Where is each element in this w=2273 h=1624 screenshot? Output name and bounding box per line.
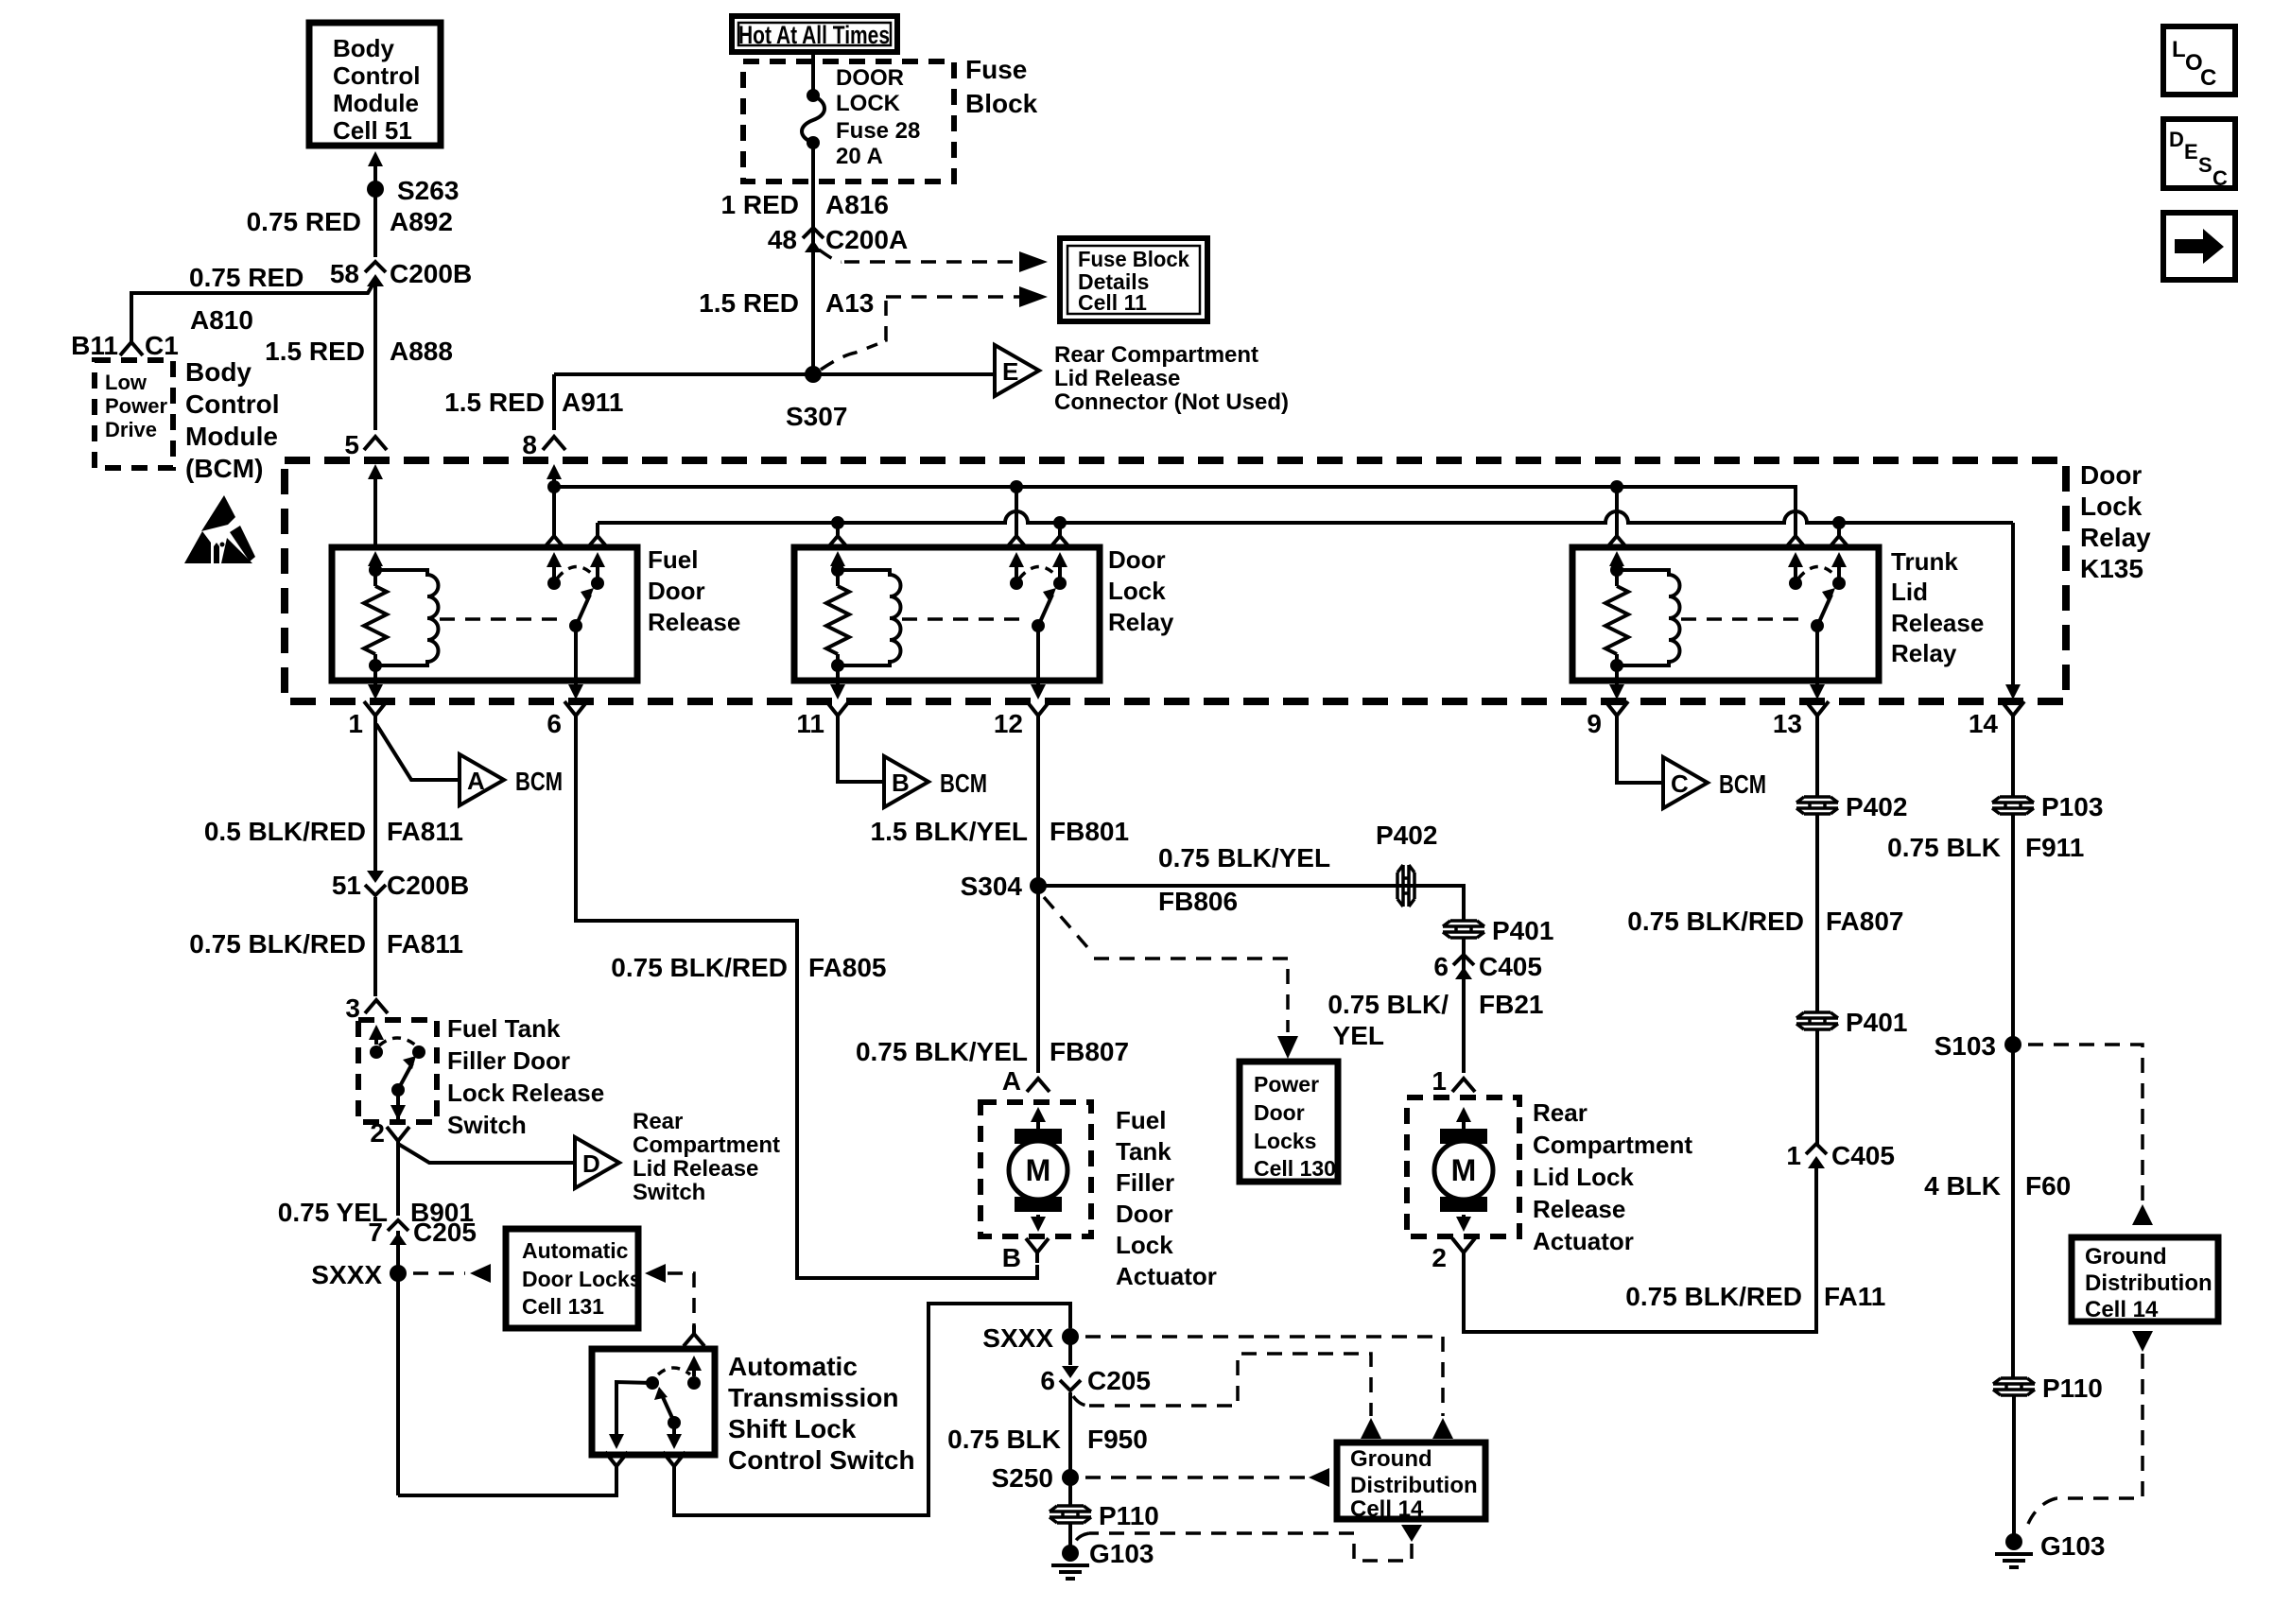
wire lineA to trunk coil entry	[1615, 487, 1619, 529]
node line A to relay 2 left contact	[1010, 480, 1023, 493]
rear actuator pin 2	[1452, 1238, 1475, 1263]
svg-text:Cell 14: Cell 14	[2085, 1297, 2159, 1322]
Fuel Tank Filler Door Lock Actuator dashed box	[980, 1102, 1091, 1236]
svg-text:20 A: 20 A	[836, 144, 883, 169]
pin 1	[364, 701, 387, 726]
wire B901	[396, 1148, 400, 1216]
svg-text:Lid Release: Lid Release	[633, 1156, 758, 1182]
svg-text:0.5 BLK/RED: 0.5 BLK/RED	[204, 817, 366, 846]
shift lock left contact	[646, 1376, 659, 1390]
svg-text:Fuse 28: Fuse 28	[836, 118, 920, 144]
svg-text:FA11: FA11	[1824, 1282, 1885, 1311]
svg-text:Hot At All Times: Hot At All Times	[738, 21, 890, 49]
svg-text:A: A	[467, 767, 485, 795]
svg-text:P110: P110	[2042, 1373, 2103, 1403]
connector C200A pin 48	[803, 228, 824, 238]
svg-text:Filler Door: Filler Door	[447, 1046, 570, 1075]
Ground Distribution Cell 14 box middle	[1337, 1443, 1485, 1519]
wire line B to pin 14	[2011, 523, 2015, 681]
svg-text:A816: A816	[825, 190, 889, 219]
svg-text:A13: A13	[825, 288, 874, 318]
relay Door Lock coil-to-switch dashed link	[902, 617, 1027, 621]
pin 5 connector at K135	[364, 437, 387, 450]
ground G103 middle	[1062, 1545, 1079, 1562]
relay Trunk Lid Release coil wire to pin	[1615, 665, 1619, 681]
Fuel Tank Filler Door Lock Release Switch dashed box	[358, 1020, 437, 1122]
LOC legend box	[2163, 26, 2235, 95]
svg-text:Release: Release	[648, 608, 740, 636]
wire F950	[1068, 1392, 1072, 1472]
relay Trunk Lid Release left contact	[1789, 577, 1802, 590]
connector C205 pin 7	[388, 1220, 408, 1231]
svg-text:K135: K135	[2080, 554, 2143, 583]
Fuse Block dashed box	[743, 61, 954, 181]
svg-text:C205: C205	[1087, 1366, 1151, 1395]
relay Door Lock contact travel arc	[1019, 566, 1057, 579]
svg-text:L: L	[2172, 37, 2186, 62]
svg-text:Distribution: Distribution	[2085, 1270, 2212, 1296]
svg-text:FB806: FB806	[1158, 887, 1238, 916]
svg-text:2: 2	[1431, 1243, 1447, 1272]
relay Trunk Lid Release common wire to pin	[1815, 626, 1819, 681]
relay Door Lock box	[794, 547, 1100, 681]
wire pin8 to relay1 left contact	[552, 487, 556, 529]
relay Fuel Door Release coil feed arrow	[373, 559, 377, 563]
svg-text:48: 48	[768, 225, 797, 254]
wire FA811 lower	[373, 897, 377, 996]
connector P401 on pin13 wire	[1796, 1012, 1838, 1029]
wire P110 to G103	[1068, 1524, 1072, 1553]
dashed ground distribution return to G103 right	[2132, 1331, 2153, 1352]
shift lock common	[668, 1416, 681, 1429]
relay Door Lock left contact	[1010, 577, 1023, 590]
svg-text:6: 6	[547, 709, 562, 738]
wire A888 vertical to pin 5	[373, 286, 377, 430]
relay Door Lock switch arm	[1040, 595, 1052, 622]
wire A892 vertical	[373, 189, 377, 257]
pin 12	[1027, 701, 1050, 726]
svg-text:3: 3	[345, 993, 360, 1023]
svg-text:Cell 11: Cell 11	[1078, 290, 1147, 315]
svg-text:SXXX: SXXX	[311, 1260, 382, 1289]
fuel actuator pin B	[1026, 1238, 1049, 1263]
pin 13	[1806, 701, 1829, 726]
shift lock common wire	[672, 1423, 676, 1431]
svg-text:F950: F950	[1087, 1425, 1148, 1454]
pin 11	[826, 701, 849, 726]
svg-text:14: 14	[1969, 709, 1999, 738]
pin 8 connector at K135	[543, 437, 565, 450]
svg-text:Tank: Tank	[1116, 1137, 1171, 1166]
svg-text:Distribution: Distribution	[1350, 1473, 1478, 1498]
svg-text:C205: C205	[413, 1218, 477, 1247]
svg-text:0.75 BLK/RED: 0.75 BLK/RED	[1625, 1282, 1802, 1311]
svg-text:C1: C1	[145, 331, 179, 360]
svg-text:A892: A892	[390, 207, 453, 236]
svg-text:M: M	[1451, 1153, 1477, 1187]
fuel switch fixed contact right	[412, 1045, 425, 1059]
svg-text:P103: P103	[2041, 792, 2103, 821]
svg-text:YEL: YEL	[1333, 1021, 1384, 1050]
svg-text:Lock Release: Lock Release	[447, 1079, 604, 1107]
svg-text:Lock: Lock	[2080, 492, 2143, 521]
svg-text:0.75 BLK/YEL: 0.75 BLK/YEL	[1158, 843, 1330, 872]
Power Door Locks Cell 130 box	[1240, 1062, 1338, 1182]
splice S263	[367, 181, 384, 198]
wire A816	[811, 143, 815, 262]
relay Trunk Lid Release coil top node	[1610, 563, 1623, 577]
svg-text:M: M	[1026, 1153, 1051, 1187]
svg-text:C: C	[2212, 166, 2228, 190]
relay Door Lock coil winding	[838, 570, 901, 665]
svg-text:Control: Control	[333, 61, 420, 90]
svg-text:Fuel Tank: Fuel Tank	[447, 1014, 561, 1043]
Rear Compartment Lid Lock Release Actuator dashed box	[1407, 1097, 1519, 1236]
relay Trunk Lid Release right contact	[1832, 577, 1846, 590]
svg-text:Cell 14: Cell 14	[1350, 1496, 1424, 1522]
BCM connector pins B11 C1	[120, 342, 143, 355]
svg-text:S: S	[2198, 153, 2212, 177]
svg-text:C200B: C200B	[390, 259, 472, 288]
relay Trunk Lid Release left contact arrow	[1794, 560, 1797, 583]
relay Fuel Door Release coil wire to pin	[373, 665, 377, 681]
svg-text:0.75 BLK/RED: 0.75 BLK/RED	[189, 929, 366, 959]
Ground Distribution Cell 14 box right	[2072, 1237, 2218, 1322]
fuel actuator pin A connector	[1027, 1079, 1050, 1092]
svg-text:Rear: Rear	[1533, 1098, 1588, 1127]
dashed C205 to ground distribution	[1073, 1396, 1089, 1406]
svg-text:Power: Power	[105, 394, 167, 418]
svg-text:SXXX: SXXX	[982, 1323, 1053, 1353]
svg-text:Fuel: Fuel	[648, 545, 698, 574]
shift lock right contact arrow	[692, 1363, 696, 1376]
svg-text:Module: Module	[185, 422, 278, 451]
svg-text:0.75 BLK: 0.75 BLK	[947, 1425, 1061, 1454]
svg-text:B: B	[892, 769, 910, 797]
wire shift-lock right pin to ground run	[674, 1304, 1070, 1515]
svg-text:D: D	[582, 1149, 600, 1178]
relay Trunk Lid Release switch common	[1811, 619, 1824, 632]
svg-text:G103: G103	[2040, 1531, 2106, 1561]
svg-text:0.75 BLK/RED: 0.75 BLK/RED	[1627, 907, 1804, 936]
fuel switch fixed contact left	[374, 1032, 378, 1045]
connector P401 on FB21	[1443, 921, 1484, 938]
svg-text:51: 51	[332, 871, 361, 900]
svg-text:S263: S263	[397, 176, 459, 205]
relay Fuel Door Release resistor	[364, 586, 387, 654]
svg-text:6: 6	[1433, 952, 1449, 981]
node line B to relay 2 coil	[831, 516, 844, 529]
wire pin11 to BCM triangle B	[838, 726, 884, 782]
svg-text:C: C	[2200, 65, 2216, 91]
wire line B to relay1 right contact	[596, 523, 599, 529]
svg-text:Lid: Lid	[1891, 578, 1928, 606]
fuel actuator motor	[1015, 1129, 1062, 1144]
svg-text:Ground: Ground	[1350, 1446, 1432, 1472]
splice S103	[2004, 1036, 2021, 1053]
relay Fuel Door Release right contact arrow	[596, 560, 599, 583]
svg-text:11: 11	[796, 709, 824, 738]
relay Door Lock resistor	[826, 586, 849, 654]
svg-text:Lock: Lock	[1108, 577, 1166, 605]
connector E triangle	[995, 345, 1039, 396]
connector C405 pin 1	[1806, 1144, 1827, 1154]
svg-text:8: 8	[522, 430, 537, 459]
fuel switch pin 2	[387, 1127, 409, 1151]
relay Door Lock switch common	[1032, 619, 1045, 632]
dashed S304 to Power Door Locks	[1044, 897, 1094, 955]
relay Door Lock common wire to pin	[1036, 626, 1040, 681]
wire pin5 to relay1 coil	[373, 479, 377, 547]
wire pin1 to BCM triangle A	[376, 724, 460, 780]
wire A13 down to S307	[811, 238, 815, 374]
relay Door Lock coil wire to pin	[836, 665, 840, 681]
fuel switch travel arc	[379, 1038, 416, 1045]
ESD sensitive symbol	[201, 495, 235, 531]
svg-text:Release: Release	[1533, 1195, 1625, 1223]
Door Lock Relay K135 dashed boundary	[285, 460, 2066, 701]
splice S304	[1030, 877, 1047, 894]
pin 14	[2002, 701, 2024, 726]
svg-text:Shift Lock: Shift Lock	[728, 1414, 857, 1443]
svg-text:G103: G103	[1089, 1539, 1154, 1568]
svg-text:Low: Low	[105, 371, 147, 394]
svg-text:S250: S250	[992, 1463, 1053, 1493]
svg-text:Rear: Rear	[633, 1109, 683, 1134]
svg-text:B11: B11	[71, 331, 118, 360]
wire SXXX middle down	[1068, 1337, 1072, 1365]
svg-text:Control: Control	[185, 389, 280, 419]
relay Trunk Lid Release switch arm	[1819, 595, 1831, 622]
svg-text:P402: P402	[1376, 821, 1437, 850]
dashed link SXXX to Automatic Door Locks	[413, 1271, 465, 1275]
svg-text:Fuel: Fuel	[1116, 1106, 1166, 1134]
svg-text:Cell 131: Cell 131	[522, 1294, 604, 1319]
wire pin9 to BCM triangle C	[1617, 726, 1663, 783]
svg-text:S307: S307	[786, 402, 847, 431]
wire FB806 horizontal	[1038, 886, 1464, 920]
svg-text:Control Switch: Control Switch	[728, 1445, 915, 1475]
shift lock right contact	[687, 1376, 701, 1390]
relay Trunk Lid Release resistor	[1605, 586, 1628, 654]
pin 5 entry arrow	[373, 472, 377, 547]
svg-text:Locks: Locks	[1254, 1129, 1316, 1153]
svg-text:BCM: BCM	[940, 769, 987, 798]
svg-text:Drive: Drive	[105, 418, 157, 441]
svg-text:FA807: FA807	[1826, 907, 1904, 936]
svg-text:P401: P401	[1492, 916, 1553, 945]
shift lock travel arc	[658, 1368, 690, 1374]
fuel switch pin 3 connector	[365, 1000, 388, 1013]
relay Fuel Door Release coil bottom node	[369, 659, 382, 672]
svg-text:A: A	[1002, 1066, 1021, 1096]
svg-text:DOOR: DOOR	[836, 65, 904, 91]
wire FA811 pin1 down	[373, 726, 377, 871]
fuse DOOR LOCK Fuse 28 20A	[807, 89, 820, 102]
wire F60	[2011, 1045, 2015, 1377]
svg-text:6: 6	[1040, 1366, 1055, 1395]
wire F911	[2011, 815, 2015, 1045]
svg-text:Compartment: Compartment	[633, 1132, 780, 1158]
svg-text:Transmission: Transmission	[728, 1383, 899, 1412]
svg-text:FB807: FB807	[1050, 1037, 1129, 1066]
wire to SXXX splice	[396, 1231, 400, 1273]
relay Fuel Door Release switch common	[569, 619, 582, 632]
svg-text:C405: C405	[1831, 1141, 1895, 1170]
svg-text:A810: A810	[190, 305, 253, 335]
svg-text:1 RED: 1 RED	[721, 190, 799, 219]
rear actuator return arrow	[1462, 1215, 1466, 1224]
Fuse Block Details Cell 11 box	[1060, 238, 1207, 321]
svg-text:B: B	[1002, 1243, 1021, 1272]
svg-text:1: 1	[348, 709, 363, 738]
wire A810 horizontal	[131, 282, 374, 342]
svg-text:1.5 RED: 1.5 RED	[444, 388, 545, 417]
relay Trunk Lid Release contact travel arc	[1798, 566, 1836, 579]
BCM triangle B	[884, 756, 928, 807]
wire pin14 down	[2011, 726, 2015, 796]
svg-text:Door: Door	[2080, 460, 2142, 490]
svg-text:P402: P402	[1846, 792, 1907, 821]
wire FA11	[1464, 1168, 1816, 1332]
svg-text:Lid Release: Lid Release	[1054, 366, 1180, 391]
relay Trunk Lid Release coil winding	[1617, 570, 1680, 665]
wire to G103 right	[2012, 1396, 2016, 1542]
relay Fuel Door Release coil winding	[375, 570, 439, 665]
svg-text:12: 12	[994, 709, 1023, 738]
svg-text:Power: Power	[1254, 1072, 1319, 1097]
fuel actuator feed arrow	[1036, 1114, 1040, 1129]
svg-text:Body: Body	[333, 34, 395, 62]
wire into fuse	[811, 52, 815, 95]
relay Fuel Door Release box	[332, 547, 637, 681]
connector P103	[1992, 797, 2034, 814]
relay Trunk Lid Release coil-to-switch dashed link	[1681, 617, 1806, 621]
shift lock left pin	[605, 1452, 628, 1477]
dashed SXXX to ground distribution	[1085, 1337, 1443, 1416]
svg-text:Body: Body	[185, 357, 252, 387]
svg-text:Lid Lock: Lid Lock	[1533, 1163, 1634, 1191]
connector P402 on pin13 wire	[1796, 797, 1838, 814]
connector C405 pin 6	[1453, 955, 1474, 965]
wire lineA to relay2 left contact entry	[1015, 487, 1018, 529]
wire FB801 pin 12 down	[1036, 726, 1040, 886]
connector P110 right	[1993, 1378, 2035, 1395]
relay Door Lock right contact arrow	[1058, 560, 1062, 583]
svg-text:Door: Door	[1108, 545, 1166, 574]
svg-text:BCM: BCM	[1719, 769, 1766, 799]
fuel switch common wire	[396, 1090, 400, 1122]
svg-text:S304: S304	[961, 872, 1023, 901]
connector P402 on FB806	[1397, 865, 1414, 907]
wire SXXX to shift-lock left pin	[398, 1477, 616, 1495]
wire pin2 to triangle D	[398, 1144, 575, 1163]
wire FB807 S304 down	[1036, 886, 1040, 1073]
relay Door Lock coil top node	[831, 563, 844, 577]
svg-text:FB21: FB21	[1479, 990, 1543, 1019]
relay Trunk Lid Release coil bottom node	[1610, 659, 1623, 672]
wire lineA corner to trunk left contact entry	[1785, 527, 1806, 548]
svg-text:Switch: Switch	[447, 1111, 527, 1139]
svg-text:FA811: FA811	[387, 929, 463, 959]
dashed S250 to ground distribution	[1085, 1476, 1305, 1479]
svg-text:Block: Block	[965, 89, 1038, 118]
relay Fuel Door Release left contact	[547, 577, 561, 590]
svg-text:1.5 BLK/YEL: 1.5 BLK/YEL	[871, 817, 1028, 846]
DESC legend box	[2163, 119, 2235, 188]
rear actuator pin 1 connector	[1452, 1079, 1475, 1092]
svg-text:Door: Door	[648, 577, 705, 605]
forward arrow legend box	[2163, 213, 2235, 280]
svg-text:Fuse: Fuse	[965, 55, 1027, 84]
relay Fuel Door Release switch arm	[578, 595, 590, 622]
svg-text:Module: Module	[333, 89, 419, 117]
svg-text:2: 2	[370, 1118, 385, 1148]
svg-text:Ground: Ground	[2085, 1244, 2167, 1270]
BCM triangle D	[575, 1137, 619, 1188]
dashed ground distribution to G103 return	[1401, 1525, 1422, 1542]
connector C205 pin 6 middle	[1062, 1366, 1079, 1378]
splice S250	[1062, 1469, 1079, 1486]
svg-text:A888: A888	[390, 337, 453, 366]
wire lineB to trunk right contact entry	[1837, 523, 1841, 529]
Automatic Transmission Shift Lock Control Switch box	[592, 1349, 715, 1455]
splice SXXX middle	[1062, 1328, 1079, 1345]
connector C200B pin 51	[367, 871, 384, 883]
svg-text:0.75 RED: 0.75 RED	[189, 263, 304, 292]
svg-text:Lock: Lock	[1116, 1231, 1173, 1259]
relay Fuel Door Release left contact arrow	[552, 560, 556, 583]
svg-text:1: 1	[1786, 1141, 1801, 1170]
svg-text:5: 5	[344, 430, 359, 459]
svg-text:1.5 RED: 1.5 RED	[265, 337, 365, 366]
svg-text:Actuator: Actuator	[1533, 1227, 1634, 1255]
splice S307	[805, 366, 822, 383]
svg-text:Relay: Relay	[1891, 639, 1957, 667]
wire S250 to P110	[1068, 1477, 1072, 1505]
svg-text:F911: F911	[2025, 833, 2084, 862]
connector C200B pin 58	[365, 262, 386, 272]
svg-text:LOCK: LOCK	[836, 91, 901, 116]
svg-text:0.75 BLK/RED: 0.75 BLK/RED	[611, 953, 788, 982]
svg-text:Connector (Not Used): Connector (Not Used)	[1054, 389, 1289, 415]
svg-text:0.75 BLK/YEL: 0.75 BLK/YEL	[856, 1037, 1028, 1066]
svg-text:E: E	[2184, 140, 2198, 164]
svg-text:S103: S103	[1935, 1031, 1996, 1061]
distribution line B	[598, 511, 2013, 523]
Body Control Module Cell 51 box	[309, 23, 441, 146]
svg-text:C: C	[1671, 769, 1689, 798]
svg-text:(BCM): (BCM)	[185, 454, 263, 483]
svg-text:7: 7	[368, 1218, 383, 1247]
wire FA807	[1815, 815, 1819, 1011]
BCM triangle C	[1663, 757, 1708, 808]
svg-text:BCM: BCM	[515, 767, 563, 796]
fuel switch arm	[400, 1063, 412, 1086]
dashed link Automatic Door Locks to shift lock switch	[645, 1264, 666, 1283]
svg-text:Relay: Relay	[2080, 523, 2151, 552]
svg-text:Relay: Relay	[1108, 608, 1174, 636]
relay Fuel Door Release contact travel arc	[557, 566, 595, 579]
relay Door Lock coil feed arrow	[836, 559, 840, 563]
svg-text:0.75 BLK: 0.75 BLK	[1887, 833, 2001, 862]
svg-text:Compartment: Compartment	[1533, 1131, 1692, 1159]
distribution line A	[554, 487, 1796, 529]
dashed S103 to ground distribution	[2028, 1045, 2143, 1202]
svg-text:FA805: FA805	[808, 953, 887, 982]
svg-text:1.5 RED: 1.5 RED	[699, 288, 799, 318]
svg-text:Filler: Filler	[1116, 1168, 1174, 1197]
